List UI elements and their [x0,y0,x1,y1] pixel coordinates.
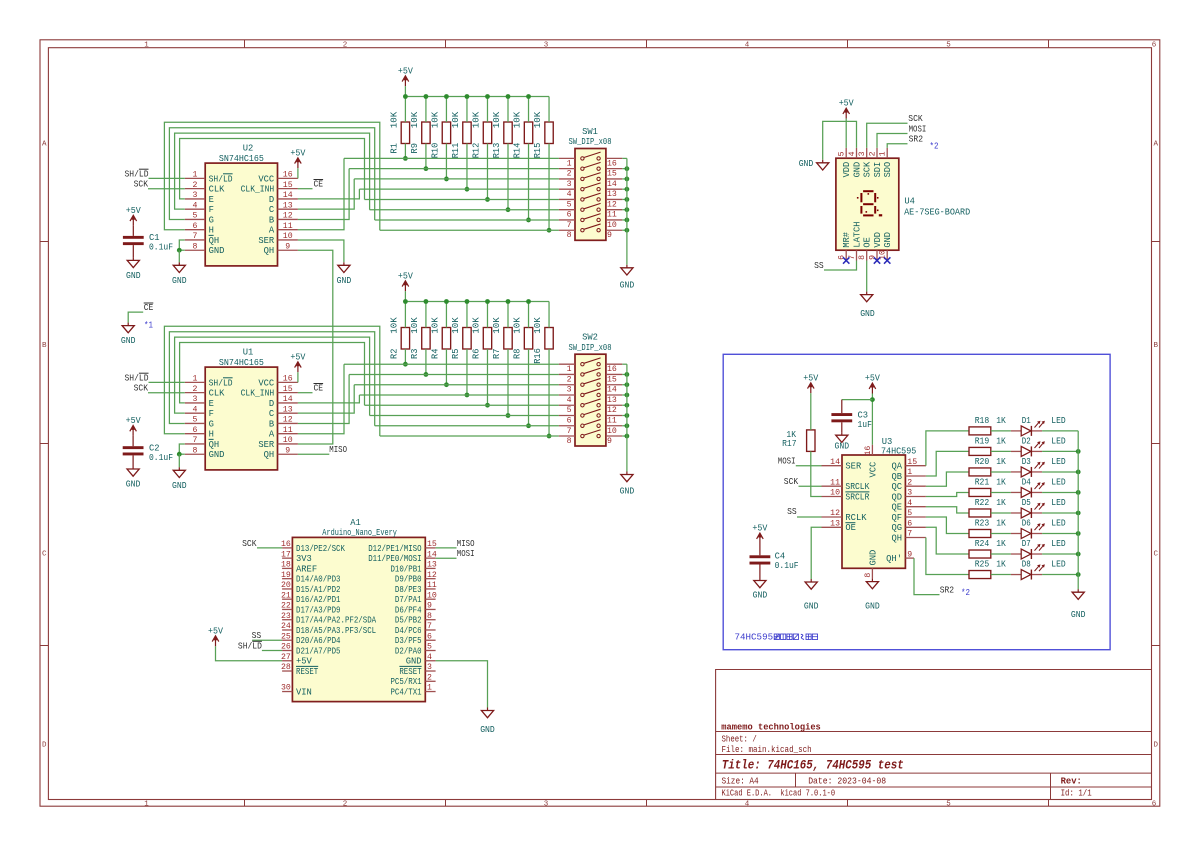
A1 pin 25 D20/A6/PD4 (left) [281,632,341,646]
wire +5V symbol to rail [404,86,406,96]
svg-text:D: D [269,399,274,409]
svg-text:1: 1 [567,159,572,168]
U1 pin 12 B (right) [269,416,298,430]
svg-text:8: 8 [193,446,198,455]
svg-text:D17/A3/PD9: D17/A3/PD9 [296,605,341,615]
wire R10 to switch row 3 [445,144,447,179]
svg-text:12: 12 [283,416,293,425]
wire SH/LD label to U2 pin 1 [149,177,185,179]
resistor R2 10K [401,328,409,350]
U4 pin 4 GND (top) [848,148,863,178]
svg-text:5: 5 [907,509,912,518]
svg-text:10K: 10K [492,316,502,333]
wire U4 pin 1 to SR2 label [887,144,907,148]
svg-text:D1: D1 [1022,416,1031,426]
resistor R9 10K [422,122,430,144]
SW2 ground rail [626,364,628,471]
ground symbol at U4 pin 8 [861,292,873,302]
wire A1 pin 14 to MOSI label [436,557,457,559]
svg-text:SCK: SCK [134,180,149,190]
svg-text:R11: R11 [451,143,461,159]
svg-text:SER: SER [258,440,275,450]
U2 pin 4 F (left) [185,201,214,215]
U3 pin 12 RCLK (left) [822,509,868,523]
svg-text:11: 11 [283,426,293,435]
svg-text:D16/A2/PD1: D16/A2/PD1 [296,595,341,605]
wire R7 to switch row 6 [507,349,509,416]
svg-text:3: 3 [567,386,572,395]
resistor R24 1K [969,550,991,558]
svg-text:2: 2 [193,181,198,190]
junction rail col 4 [465,299,470,304]
junction rail col 1 [403,299,408,304]
junction rail col 3 [444,299,449,304]
U1 pin 10 SER (right) [258,436,298,450]
pull-up +5V rail [405,96,549,98]
svg-text:AE-7SEG-BOARD: AE-7SEG-BOARD [904,207,970,217]
LED cathode rail [1077,431,1079,589]
svg-text:28: 28 [281,663,291,672]
svg-text:GND: GND [753,590,768,600]
U2 pin 15 CLK_INH (right) [241,181,298,195]
svg-text:3: 3 [427,663,432,672]
LED D6 [1011,523,1045,538]
svg-text:QG: QG [891,523,902,533]
SW2 switch 7 pins 7/10 [559,419,622,435]
svg-text:R2: R2 [389,349,399,359]
svg-text:2: 2 [907,478,912,487]
junction R1 / row 1 [403,156,408,161]
svg-text:+5V: +5V [398,271,414,281]
IC U2 SN74HC165 body [205,163,277,266]
wire U1 pin 9 to MISO label [298,453,329,455]
svg-text:E: E [209,399,214,409]
wire U3 QA to LED row 1 [926,431,969,466]
LED D2 [1011,441,1045,456]
svg-text:GND: GND [209,450,225,460]
power +5V at A1 pin 27 [212,636,219,646]
wire SW1 row 1 [344,157,559,159]
ground symbol below CE label [122,323,134,333]
junction R14 / row 7 [526,218,531,223]
svg-text:15: 15 [283,181,293,190]
svg-text:GND: GND [868,550,878,566]
wire U3 QF to LED row 6 [926,517,969,534]
wire D1 to cathode rail [1042,430,1078,432]
svg-text:6: 6 [193,222,198,231]
wire U4 pin 8 OE to ground [866,261,868,292]
svg-text:8: 8 [427,612,432,621]
svg-text:15: 15 [907,458,917,467]
svg-text:5: 5 [838,151,847,156]
svg-text:10: 10 [283,436,293,445]
svg-text:10: 10 [830,489,840,498]
junction rail row 3 [625,177,630,182]
svg-text:R7: R7 [492,349,502,359]
U2 pin 7 QH (left) [185,232,219,246]
resistor R19 1K [969,447,991,455]
svg-text:10K: 10K [451,111,461,128]
blue note text 74HC595 direct-use [735,633,818,643]
junction rail row 5 [625,197,630,202]
U2 pin 16 VCC (right) [258,171,298,185]
svg-text:+5V: +5V [752,524,768,534]
svg-text:SRCLR: SRCLR [845,492,870,502]
junction cathode rail row 8 [1076,572,1081,577]
svg-text:27: 27 [281,653,291,662]
wire SS label to U3 pin 12 [797,516,822,518]
svg-text:B: B [1153,342,1158,350]
svg-text:D20/A6/PD4: D20/A6/PD4 [296,636,341,646]
junction rail row 2 [625,372,630,377]
U3 pin 1 QB (right) [891,468,925,482]
wire R3 to switch row 2 [425,349,427,374]
svg-text:GND: GND [1071,610,1086,620]
junction rail col 6 [506,299,511,304]
junction rail row 5 [625,403,630,408]
wire U2 B output to SW1 row 2 [298,169,349,220]
wire SS label to A1 pin 25 [252,639,282,641]
svg-text:VIN: VIN [296,687,312,697]
svg-text:File: main.kicad_sch: File: main.kicad_sch [722,745,812,755]
svg-text:14: 14 [830,458,840,467]
svg-text:25: 25 [281,632,291,641]
A1 pin 13 D10/PB1 (right) [390,561,436,575]
svg-text:9: 9 [427,602,432,611]
ground symbol at LED rail [1072,589,1084,599]
power +5V at resistor bank [402,281,409,291]
svg-text:QH: QH [209,236,220,246]
wire U1 F input loop to SW2 row 6 [175,337,370,415]
svg-text:3: 3 [567,180,572,189]
wire rail to R3 [425,302,427,328]
junction cathode rail row 6 [1076,531,1081,536]
U3 pin 9 QH' (right) [886,550,914,564]
wire SW1 row 8 [380,229,559,231]
U1 pin 6 H (left) [185,426,214,440]
U2 pin 8 GND (left) [185,242,225,256]
svg-text:8: 8 [858,255,867,260]
junction rail col 7 [526,299,531,304]
svg-text:15: 15 [283,385,293,394]
power +5V at C2 [130,426,137,436]
svg-text:7: 7 [567,427,572,436]
svg-text:CLK: CLK [209,185,226,195]
svg-text:C: C [1153,551,1158,559]
svg-text:11: 11 [607,211,617,220]
junction rail col 7 [526,94,531,99]
svg-text:D13/PE2/SCK: D13/PE2/SCK [296,544,346,554]
svg-text:R1: R1 [389,143,399,153]
wire rail to R10 [445,97,447,123]
resistor R22 1K [969,509,991,517]
svg-text:+5V: +5V [865,374,881,384]
svg-text:10K: 10K [389,111,399,128]
svg-text:SW1: SW1 [582,127,598,137]
svg-text:R5: R5 [451,349,461,359]
resistor R6 10K [483,328,491,350]
svg-text:+5V: +5V [126,206,142,216]
wire U4 pin 7 to SS label [824,261,857,271]
U3 pin 10 SRCLR (left) [822,489,871,503]
wire D5 to cathode rail [1042,512,1078,514]
svg-text:3: 3 [544,42,549,50]
SW1 switch 6 pins 6/11 [559,203,622,219]
U3 pin 3 QD (right) [891,489,925,503]
wire SCK label to A1 pin 16 [257,547,282,549]
svg-text:1: 1 [879,151,888,156]
ground symbol at U2 SER [338,262,350,272]
power +5V at U2 VCC pin 16 [295,158,302,168]
svg-text:16: 16 [607,159,617,168]
U4 pin 10 GND (bottom) [879,232,894,261]
svg-text:GND: GND [337,276,352,286]
svg-text:9: 9 [607,231,612,240]
svg-text:GND: GND [835,441,850,451]
SW2 right pin wire to rail row 3 [622,384,627,386]
svg-text:10: 10 [427,591,437,600]
wire junction to C3 [842,399,873,401]
svg-text:16: 16 [283,375,293,384]
wire D6 to cathode rail [1042,533,1078,535]
A1 pin 18 AREF (left) [281,561,317,575]
svg-text:R23: R23 [975,519,990,529]
junction cathode rail row 3 [1076,470,1081,475]
svg-text:SDO: SDO [883,162,893,178]
svg-text:1: 1 [567,365,572,374]
svg-text:CLK_INH: CLK_INH [241,389,275,399]
resistor R13 10K [504,122,512,144]
svg-text:1K: 1K [996,477,1006,487]
svg-text:3: 3 [193,395,198,404]
svg-text:MR#: MR# [842,232,852,248]
A1 pin 8 D5/PB2 (right) [395,612,436,626]
U4 pin 8 OE (bottom) [858,237,873,260]
svg-text:CE: CE [314,384,324,394]
wire R18 to D1 [991,430,1011,432]
LED D8 [1011,564,1045,579]
resistor R8 10K [524,328,532,350]
junction R13 / row 6 [506,207,511,212]
junction R16 / row 8 [547,434,552,439]
svg-text:GND: GND [804,601,819,611]
svg-text:10K: 10K [430,111,440,128]
svg-text:R9: R9 [410,143,420,153]
resistor R4 10K [442,328,450,350]
svg-text:4: 4 [193,405,198,414]
svg-text:10K: 10K [512,316,522,333]
U3 pin 14 SER (left) [822,458,862,472]
wire CE label to ground [128,312,143,323]
svg-text:LED: LED [1051,416,1065,426]
svg-text:3V3: 3V3 [296,554,312,564]
SW1 switch 5 pins 5/12 [559,193,622,209]
junction rail row 8 [625,228,630,233]
U1 pin 2 CLK (left) [185,385,225,399]
U3 pin 16 VCC (top) [864,445,879,478]
SW2 right pin wire to rail row 7 [622,425,627,427]
wire U3 QH' pin 9 to SR2 label [914,558,940,595]
svg-text:10K: 10K [430,316,440,333]
no-connect X at U4 pin 9 [874,257,880,263]
ground symbol at SW1 [621,265,633,275]
A1 pin 23 D17/A4/PA2.PF2/SDA (left) [281,612,377,626]
ground symbol at C2 [127,466,139,476]
wire +5V to R17 [810,393,812,430]
svg-text:KiCad E.D.A. kicad 7.0.1-0: KiCad E.D.A. kicad 7.0.1-0 [722,789,836,799]
resistor R15 10K [545,122,553,144]
svg-text:QH: QH [264,450,275,460]
svg-text:10K: 10K [410,316,420,333]
A1 pin 22 D17/A3/PD9 (left) [281,602,341,616]
wire R2 to switch row 1 [404,349,406,364]
svg-text:D14/A0/PD3: D14/A0/PD3 [296,575,341,585]
U1 pin 11 A (right) [269,426,298,440]
SW2 switch 5 pins 5/12 [559,399,622,415]
svg-text:1K: 1K [996,498,1006,508]
junction rail row 4 [625,187,630,192]
wire D4 to cathode rail [1042,491,1078,493]
svg-text:GND: GND [172,276,187,286]
svg-text:R14: R14 [512,143,522,159]
SW2 right pin wire to rail row 5 [622,404,627,406]
wire R19 to D2 [991,450,1011,452]
junction rail col 5 [485,299,490,304]
svg-text:VDD: VDD [842,162,852,178]
wire A1 pin 4 GND to ground [436,661,488,708]
svg-text:6: 6 [567,211,572,220]
wire D7 to cathode rail [1042,553,1078,555]
junction at C3 tap [870,397,875,402]
junction rail col 2 [424,94,429,99]
wire U2 QH(bar) pin 7 to GND net [179,240,185,250]
svg-text:SR2: SR2 [940,585,954,595]
wire +5V to U1 pin 16 [297,372,299,382]
svg-text:12: 12 [830,509,840,518]
U1 pin 4 F (left) [185,405,214,419]
junction R12 / row 5 [485,197,490,202]
svg-text:SR2: SR2 [909,135,923,145]
svg-text:SH/LD: SH/LD [238,642,262,652]
svg-text:LED: LED [1051,478,1065,488]
junction rail row 6 [625,207,630,212]
svg-text:SH/LD: SH/LD [209,174,233,184]
A1 pin 6 D3/PF5 (right) [395,632,436,646]
wire rail to R7 [507,302,509,328]
A1 pin 15 D12/PE1/MISO (right) [368,540,437,554]
wire U2 GND pin 8 stub [179,249,185,251]
svg-text:LED: LED [1051,539,1065,549]
SW1 ground rail [626,158,628,264]
svg-text:D8/PE3: D8/PE3 [395,585,422,595]
svg-text:QD: QD [891,492,902,502]
svg-text:R8: R8 [512,349,522,359]
U3 pin 2 QC (right) [891,478,925,492]
svg-text:10K: 10K [389,316,399,333]
U1 pin 8 GND (left) [185,446,225,460]
A1 pin 24 D18/A5/PA3.PF3/SCL (left) [281,622,376,636]
wire rail to R6 [486,302,488,328]
svg-text:1K: 1K [996,560,1006,570]
svg-text:QH': QH' [886,554,902,564]
svg-text:11: 11 [830,478,840,487]
SW2 right pin wire to rail row 4 [622,394,627,396]
svg-text:LATCH: LATCH [852,222,862,248]
frame column labels [144,42,1157,809]
svg-text:A: A [42,141,47,149]
svg-text:5: 5 [946,801,951,809]
A1 pin 19 D14/A0/PD3 (left) [281,571,341,585]
power +5V at R17 [808,383,815,393]
junction at U2 pin 8 ground [177,248,182,253]
svg-text:D15/A1/PD2: D15/A1/PD2 [296,585,341,595]
svg-text:R15: R15 [533,143,543,159]
wire U2 QH pin 9 down to U1 SER pin 10 [298,250,333,444]
wire R4 to switch row 3 [445,349,447,385]
svg-text:H: H [209,430,214,440]
svg-text:7: 7 [427,622,432,631]
svg-text:R21: R21 [975,477,990,487]
svg-text:LED: LED [1051,498,1065,508]
svg-text:QB: QB [891,472,902,482]
svg-text:1K: 1K [996,539,1006,549]
svg-text:0.1uF: 0.1uF [775,561,799,571]
wire U4 pin 3 to SCK label [867,123,908,148]
svg-text:2: 2 [567,170,572,179]
junction rail col 2 [424,299,429,304]
svg-text:11: 11 [427,581,437,590]
wire U1 QH(bar) pin 7 to GND net [179,444,185,454]
wire U1 D output to SW2 row 4 [298,395,360,403]
DIP switch SW1 body [575,149,606,241]
svg-text:Title: 74HC165, 74HC595 test: Title: 74HC165, 74HC595 test [722,758,904,772]
SW1 switch 1 pins 1/16 [559,152,622,168]
svg-text:R22: R22 [975,498,990,508]
SW1 right pin wire to rail row 3 [622,178,627,180]
A1 pin 9 D6/PF4 (right) [395,602,436,616]
U3 pin 7 QH (right) [891,530,925,544]
wire SW2 row 8 [380,435,559,437]
wire +5V to U3 VCC pin 16 [871,394,873,445]
wire U2 A output to SW1 row 1 [298,158,344,229]
svg-text:OE: OE [845,523,856,533]
wire SW1 row 4 [359,188,559,190]
junction rail col 3 [444,94,449,99]
svg-text:1: 1 [144,42,149,50]
svg-text:10: 10 [607,427,617,436]
power +5V at C4 [757,533,764,543]
wire D3 to cathode rail [1042,471,1078,473]
ground symbol at U3 GND pin 8 [866,579,878,589]
svg-text:R6: R6 [471,349,481,359]
svg-text:R3: R3 [410,349,420,359]
svg-text:7: 7 [907,530,912,539]
U1 pin 16 VCC (right) [258,375,298,389]
svg-text:B: B [42,342,47,350]
junction rail row 3 [625,382,630,387]
A1 pin 11 D8/PE3 (right) [395,581,437,595]
U2 pin 2 CLK (left) [185,181,225,195]
wire SCK label to U3 pin 11 [799,485,822,487]
svg-text:24: 24 [281,622,291,631]
svg-text:A: A [269,226,275,236]
wire rail to R11 [466,97,468,123]
svg-text:5: 5 [946,42,951,50]
ground symbol at C1 [127,257,139,267]
svg-text:10K: 10K [471,316,481,333]
wire D2 to cathode rail [1042,450,1078,452]
svg-text:MISO: MISO [329,445,347,455]
